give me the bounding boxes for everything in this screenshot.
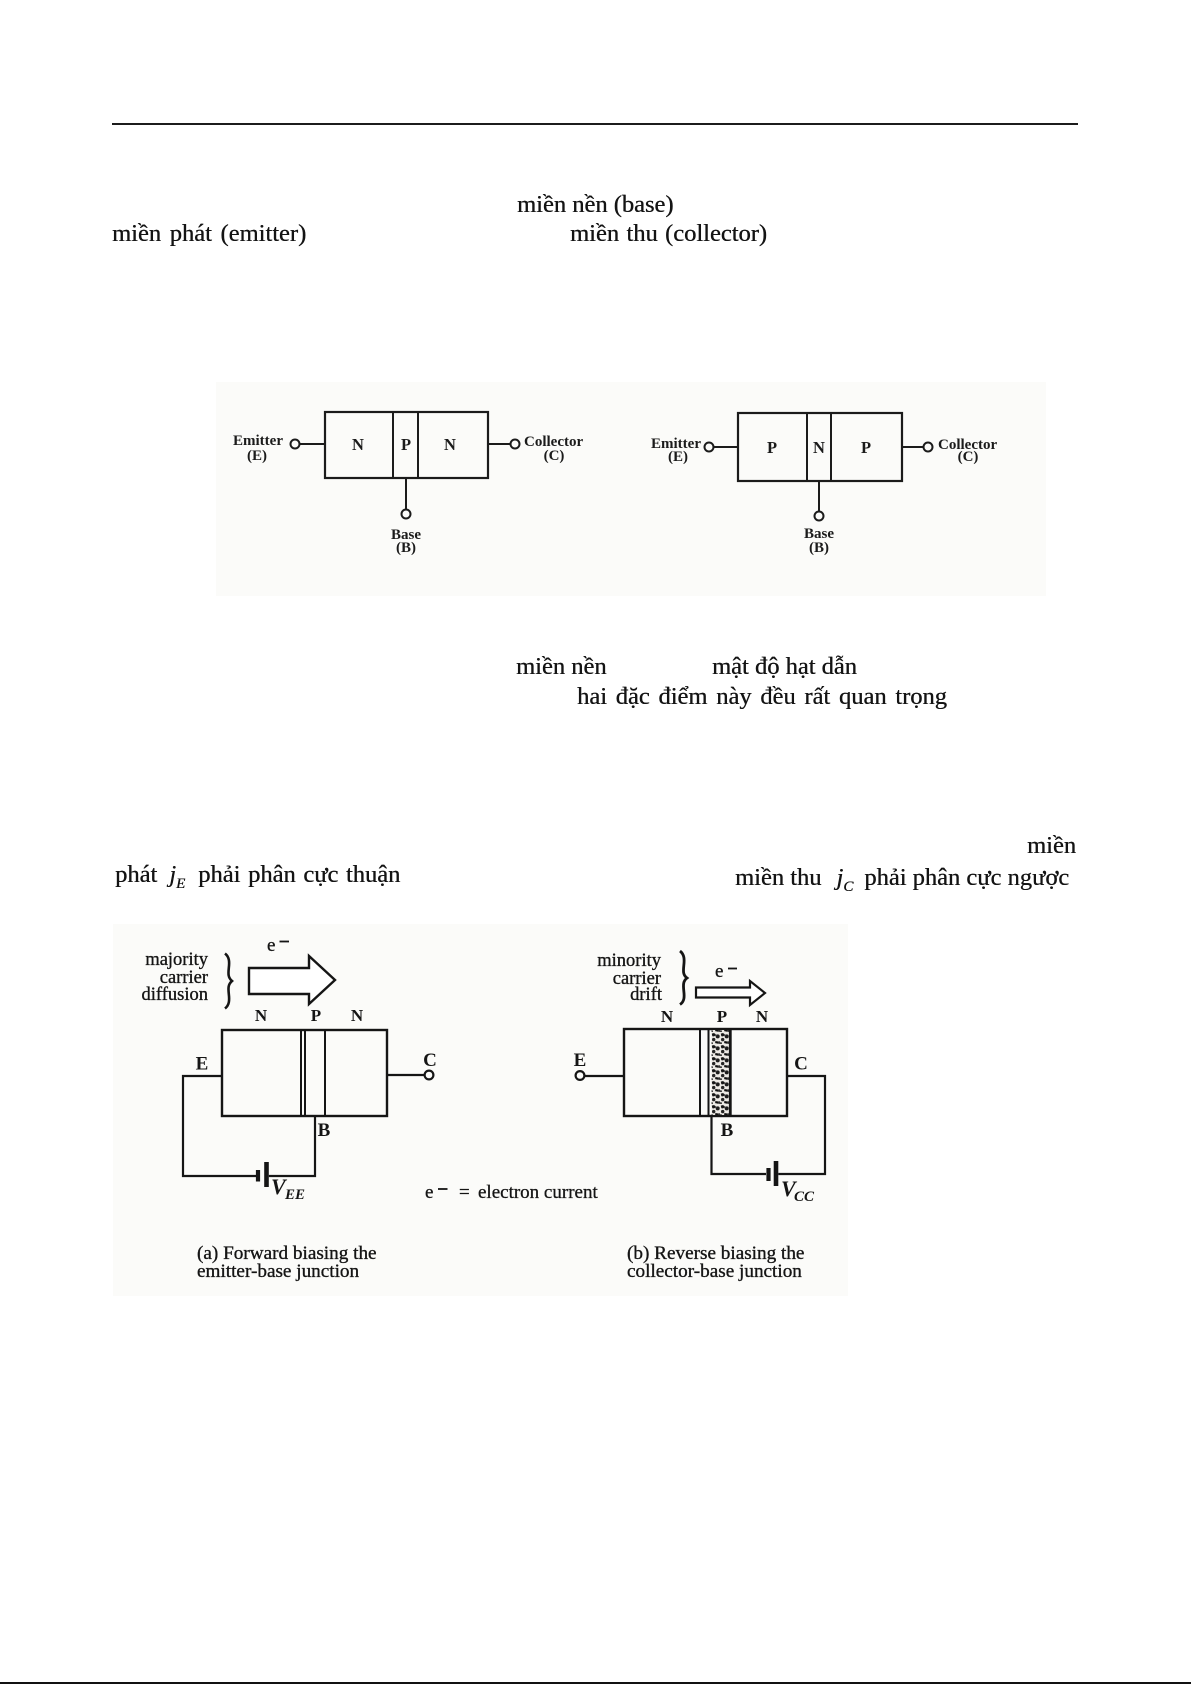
- svg-text:N: N: [756, 1007, 769, 1026]
- label e- a: [267, 935, 289, 956]
- svg-text:=: =: [459, 1182, 470, 1203]
- svg-text:emitter-base junction: emitter-base junction: [197, 1261, 360, 1282]
- transistor body npn: [325, 412, 488, 478]
- svg-text:e: e: [715, 961, 723, 982]
- wire collector npn: [488, 443, 510, 445]
- svg-text:(E): (E): [668, 449, 688, 465]
- text line: mien nen (base): [517, 193, 673, 218]
- svg-text:(E): (E): [247, 448, 267, 464]
- label VEE: [271, 1174, 305, 1203]
- svg-text:Emitter: Emitter: [233, 433, 283, 449]
- wire base a: [269, 1116, 315, 1176]
- battery VEE short plate: [256, 1170, 260, 1182]
- label Base (B) npn: [391, 527, 421, 556]
- text line: mien (right): [1027, 834, 1076, 859]
- svg-text:N: N: [352, 435, 364, 454]
- svg-text:e: e: [267, 935, 275, 956]
- terminal circle emitter pnp: [705, 443, 714, 452]
- label majority carrier diffusion: [142, 950, 209, 1005]
- svg-text:P: P: [767, 438, 777, 457]
- svg-text:E: E: [574, 1050, 587, 1071]
- battery VCC long plate: [774, 1161, 779, 1186]
- svg-text:(C): (C): [544, 448, 565, 464]
- svg-text:E: E: [196, 1054, 209, 1075]
- label Collector (C) pnp: [938, 437, 997, 465]
- svg-text:N: N: [255, 1006, 268, 1025]
- terminal circle emitter npn: [291, 440, 300, 449]
- svg-text:P: P: [861, 438, 871, 457]
- region labels N P N: [352, 435, 456, 454]
- svg-text:minority: minority: [597, 951, 661, 971]
- text line: mien nen: [516, 655, 607, 680]
- region labels N P N (b): [661, 1007, 769, 1026]
- figure 1 scan background: [216, 382, 1046, 596]
- wire collector a: [387, 1074, 424, 1076]
- junction line npn 2: [417, 412, 419, 478]
- wire collector pnp: [902, 446, 923, 448]
- text line: mien thu (collector): [570, 222, 767, 247]
- transistor body b: [624, 1029, 787, 1116]
- svg-text:C: C: [794, 1054, 808, 1075]
- junction line pnp 2: [830, 413, 832, 481]
- svg-text:diffusion: diffusion: [142, 985, 208, 1005]
- text line: mat do hat dan: [712, 655, 857, 680]
- svg-text:B: B: [721, 1120, 734, 1141]
- svg-text:collector-base junction: collector-base junction: [627, 1261, 802, 1282]
- svg-text:C: C: [423, 1050, 437, 1071]
- svg-text:P: P: [717, 1007, 727, 1026]
- wire base pnp: [818, 481, 820, 511]
- wire base npn: [405, 478, 407, 509]
- terminal circle collector pnp: [924, 443, 933, 452]
- label e- b: [715, 961, 737, 982]
- svg-text:drift: drift: [630, 985, 663, 1005]
- figure 2 scan background: [113, 924, 848, 1296]
- wire emitter npn: [300, 443, 325, 445]
- label VCC: [781, 1176, 815, 1205]
- svg-text:P: P: [401, 435, 411, 454]
- svg-text:N: N: [351, 1006, 364, 1025]
- region labels P N P: [767, 438, 871, 457]
- region labels N P N (a): [255, 1006, 364, 1025]
- brace b: [680, 951, 687, 1005]
- bottom rule: [0, 1682, 1191, 1684]
- wire emitter pnp: [714, 446, 738, 448]
- junction line a right: [324, 1030, 326, 1116]
- label minority carrier drift: [597, 951, 663, 1005]
- transistor body a: [222, 1030, 387, 1116]
- text line: mien phat (emitter): [112, 222, 306, 247]
- battery VCC short plate: [766, 1168, 770, 1181]
- label Base (B) pnp: [804, 526, 834, 556]
- top rule: [112, 123, 1078, 125]
- label Emitter (E) npn: [233, 433, 283, 464]
- text line: phat jE phai phan cuc thuan: [115, 863, 400, 892]
- svg-text:(B): (B): [396, 540, 416, 556]
- svg-text:(B): (B): [809, 540, 829, 556]
- junction line pnp 1: [806, 413, 808, 481]
- brace a: [225, 954, 232, 1009]
- junction double line a: [300, 1030, 302, 1116]
- junction line npn 1: [392, 412, 394, 478]
- caption b: [627, 1243, 804, 1282]
- svg-text:e: e: [425, 1182, 433, 1203]
- svg-text:P: P: [311, 1006, 321, 1025]
- svg-text:N: N: [661, 1007, 674, 1026]
- svg-text:N: N: [813, 438, 825, 457]
- legend e- = electron current: [425, 1182, 598, 1203]
- svg-text:(C): (C): [958, 449, 979, 465]
- junction line b 2: [708, 1029, 710, 1116]
- text line: mien thu jC phai phan cuc nguoc: [735, 866, 1069, 895]
- label Emitter (E) pnp: [651, 436, 701, 465]
- wire base b: [712, 1116, 767, 1174]
- caption a: [197, 1243, 377, 1282]
- svg-text:majority: majority: [145, 950, 208, 970]
- label Collector (C) npn: [524, 434, 583, 464]
- text line: hai dac diem: [577, 685, 947, 710]
- wire collector b: [778, 1076, 825, 1174]
- terminal circle base pnp: [815, 512, 824, 521]
- block arrow b: [696, 981, 765, 1005]
- svg-text:CC: CC: [794, 1189, 815, 1205]
- transistor body pnp: [738, 413, 902, 481]
- svg-text:EE: EE: [284, 1187, 305, 1203]
- terminal circle collector npn: [511, 440, 520, 449]
- wire emitter b: [585, 1075, 624, 1077]
- junction line b 3 (right edge of depletion): [729, 1029, 732, 1116]
- wire emitter a: [183, 1076, 256, 1176]
- svg-text:electron current: electron current: [478, 1182, 598, 1203]
- terminal circle collector a: [425, 1071, 434, 1080]
- battery VEE long plate: [264, 1162, 269, 1187]
- junction line b 1: [699, 1029, 701, 1116]
- svg-text:N: N: [444, 435, 456, 454]
- svg-text:B: B: [318, 1120, 331, 1141]
- block arrow a: [249, 956, 335, 1004]
- terminal circle emitter b: [576, 1071, 585, 1080]
- terminal circle base npn: [402, 510, 411, 519]
